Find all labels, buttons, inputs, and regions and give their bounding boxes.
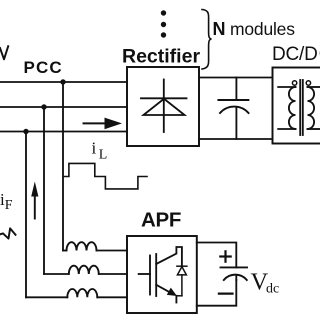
wire dc bus top [199,77,273,79]
capacitor C2 vdc [221,267,248,280]
svg-text:i: i [92,139,97,158]
waveform iF squiggle [0,228,16,238]
label iF [0,190,13,213]
svg-text:PCC: PCC [24,58,63,77]
wire vdc bottom [197,280,237,306]
svg-text:DC/D: DC/D [272,44,318,65]
wire phase A [0,81,127,83]
node junction A [60,79,65,84]
wire vdc top [197,243,237,268]
svg-text:Rectifier: Rectifier [122,46,200,68]
inductor L1 [63,242,127,250]
svg-text:F: F [5,198,13,213]
node junction B [41,104,46,109]
inductor L2 [44,266,127,274]
minus sign [219,293,233,295]
capacitor C1 dc-link [218,78,248,140]
ellipsis dots N modules [161,10,166,37]
node junction C [23,129,28,134]
label iL [92,139,108,163]
dc-dc box U2 [273,68,320,144]
label Vdc [251,269,280,297]
wire tap C down [25,132,27,298]
wire dc bus bottom [199,138,273,140]
waveform iL stepped [63,163,147,189]
diode D1 inside rectifier [141,80,187,133]
diode D2 inside apf [176,266,187,296]
wire tap B down [43,107,45,274]
svg-text:N: N [213,19,226,39]
inductor L3 [26,289,127,297]
svg-text:L: L [99,148,108,163]
arrow iL direction [84,118,123,130]
svg-text:APF: APF [141,209,181,232]
plus sign [220,251,230,261]
source squiggle vs [0,46,8,59]
igbt Q1 inside apf [139,247,182,303]
arrow iF up [31,182,38,219]
label N modules [213,19,296,39]
svg-text:modules: modules [230,19,295,39]
rectifier box U1 [127,67,199,146]
brace N modules [202,10,212,70]
wire phase B [0,106,127,108]
transformer T1 [278,80,320,135]
wire phase C [0,131,127,133]
apf box U3 [127,236,197,313]
wire tap A down [62,82,64,251]
svg-text:dc: dc [266,282,279,297]
